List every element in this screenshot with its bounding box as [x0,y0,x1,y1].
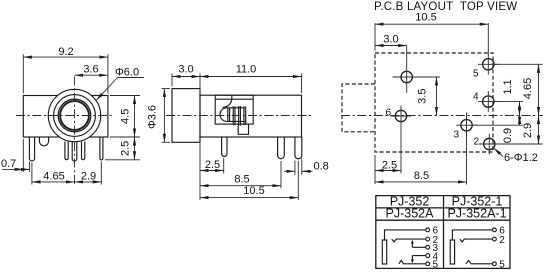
dim 8.5 side [200,161,281,188]
dim 4.5 [110,96,140,138]
hole 4 [473,91,499,112]
body rect [200,95,302,137]
ring contact and wire pin 5 right [466,261,493,264]
svg-text:2.5: 2.5 [120,141,132,156]
tip contact V and wire pin 2 right [460,239,493,242]
svg-text:0.8: 0.8 [314,161,329,173]
svg-text:4.65: 4.65 [522,78,534,99]
dim 2.9 [75,162,102,185]
horizontal centerline [16,115,114,117]
hole 2 [474,134,500,155]
bore circle inner [60,101,89,130]
wire to pin 6 right [452,230,492,240]
svg-text:2.5: 2.5 [382,159,397,171]
svg-text:4.5: 4.5 [120,109,132,124]
dim 2.5 pcb [375,130,401,185]
barrel rect [172,89,200,143]
dim 10.5 pcb [375,11,488,54]
svg-text:P.C.B LAYOUT TOP VIEW: P.C.B LAYOUT TOP VIEW [374,1,517,13]
label 6 holes dia 1.2 [494,148,538,164]
left mounting pin [29,137,34,161]
svg-text:PJ-352A-1: PJ-352A-1 [447,207,506,221]
wire pin 4 with switch arrow [412,256,425,262]
svg-text:3.6: 3.6 [83,63,98,75]
pcb barrel outline dashed [342,84,375,132]
svg-text:8.5: 8.5 [234,173,249,185]
svg-text:2.5: 2.5 [205,159,220,171]
hole 6 [386,106,412,130]
svg-text:Φ6.0: Φ6.0 [115,67,139,79]
svg-text:0.7: 0.7 [1,158,16,170]
svg-text:10.5: 10.5 [243,185,264,197]
dim 0.7 [1,139,30,172]
svg-text:10.5: 10.5 [415,11,436,23]
dim 8.5 pcb [375,131,467,185]
ring contact and wire pin 5 [399,260,426,263]
dim 0.9 pcb [473,116,524,144]
contact capsule [220,108,246,122]
svg-text:2: 2 [474,137,480,148]
svg-text:4.65: 4.65 [43,170,64,182]
svg-text:5: 5 [499,260,505,271]
svg-text:6: 6 [386,108,392,119]
svg-text:3.0: 3.0 [178,64,193,76]
side pin A [278,137,285,159]
dim 4.65 pcb [494,64,543,115]
hole 3 [454,113,478,141]
dim 9.2 [23,46,108,94]
dim 3.6 [75,63,108,75]
center prong middle [72,140,77,162]
internal top line [215,95,253,99]
dim 11.0 side [200,64,302,94]
hole 5 [473,54,499,80]
side pin B [295,137,302,159]
svg-text:9.2: 9.2 [58,46,73,58]
dim 2.9 pcb [495,116,543,145]
wire pin 3 with switch arrow [412,242,425,248]
svg-text:PJ-352A: PJ-352A [386,207,435,221]
svg-text:1.1: 1.1 [502,79,514,94]
contact spring curve [223,99,232,107]
svg-text:8.5: 8.5 [414,170,429,182]
right pin [100,137,103,160]
svg-text:6-Φ1.2: 6-Φ1.2 [504,152,538,164]
spring bars [228,106,246,126]
svg-text:5: 5 [473,69,479,80]
pin 6 terminal right [493,228,497,232]
side pin 1 [222,137,227,157]
pcb outline dashed [375,53,493,152]
body rectangle [23,96,108,138]
plug body left [382,240,386,264]
dim 1.1 pcb [494,79,523,115]
table grid [376,196,510,269]
internal contact box [215,95,253,124]
contact leg block [238,124,248,134]
dim 4.65 [32,163,75,185]
center prong left [65,142,68,160]
dim 2.5 side [200,143,224,200]
svg-text:Φ3.6: Φ3.6 [146,105,158,129]
dim 3.5 pcb [417,77,441,116]
pin 6 terminal [426,228,430,232]
dim 3.0 pcb [375,34,407,46]
dim 0.8 side [284,159,329,175]
svg-text:0.9: 0.9 [502,128,514,143]
dim 3.0 side [172,64,200,94]
svg-text:3.0: 3.0 [383,34,398,46]
side centerline [166,115,311,117]
dim 10.5 side [200,161,298,200]
vertical centerline [74,77,76,187]
svg-text:11.0: 11.0 [236,64,257,76]
barrel second circle [54,95,96,137]
plug body right [450,240,454,264]
svg-text:5: 5 [433,260,439,271]
center prong right [82,142,85,160]
tip contact V and wire pin 2 [392,239,426,242]
svg-text:4: 4 [473,92,479,103]
bore circle outer [58,99,91,132]
dim dia 3.6 side [146,89,170,143]
pcb centerline [341,115,543,117]
svg-text:2: 2 [499,235,505,246]
svg-text:2.9: 2.9 [81,170,96,182]
barrel outer circle [48,89,100,141]
label dia 6.0 leader [96,67,144,101]
svg-text:3.5: 3.5 [417,89,429,104]
locating peg [39,137,48,146]
hole 1 (top left) [393,46,418,94]
svg-text:2.9: 2.9 [522,123,534,138]
wire to pin 6 [385,230,426,240]
dim 2.5 [105,137,140,160]
svg-text:3: 3 [454,130,460,141]
